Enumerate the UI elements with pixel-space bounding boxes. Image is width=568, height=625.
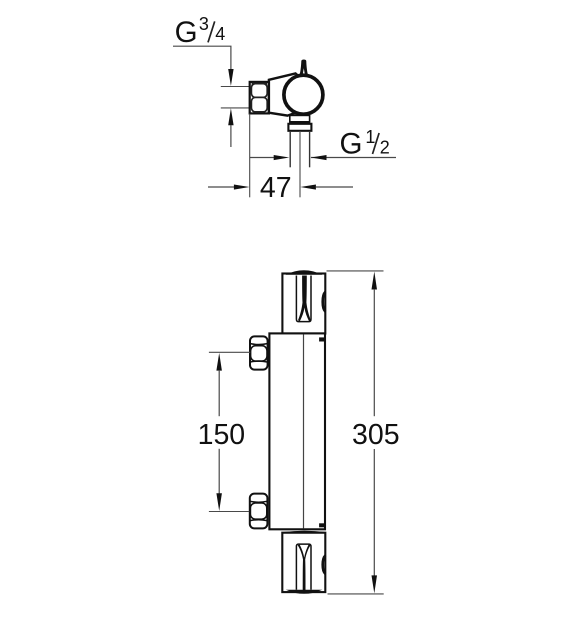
svg-text:150: 150 [198, 419, 246, 451]
thermostat circle [284, 75, 323, 114]
outlet collar ring 1 [289, 115, 310, 123]
dimension 47 left arrow [208, 185, 250, 190]
bottom handle body [282, 533, 325, 592]
svg-text:1: 1 [365, 127, 375, 147]
label G3/4 [175, 14, 226, 49]
svg-text:47: 47 [260, 172, 292, 204]
svg-text:4: 4 [215, 24, 225, 44]
lower wall nut front view [250, 494, 268, 529]
dimension 150 top extension line [209, 351, 250, 353]
bottom handle grip center funnel [298, 544, 311, 591]
eco button mark top [319, 337, 324, 341]
dimension 150 bottom extension line [209, 511, 249, 513]
outlet collar ring 2 [288, 124, 311, 131]
svg-text:305: 305 [352, 419, 400, 451]
valve body side view [269, 73, 303, 115]
top handle grip outline [296, 276, 311, 322]
leader line G3/4 [173, 46, 231, 71]
dimension 305 line and arrows [372, 272, 378, 594]
upper wall nut front view [250, 336, 268, 369]
stem knob on top [300, 60, 308, 75]
svg-text:2: 2 [380, 138, 390, 158]
eco button mark bottom [319, 523, 324, 527]
svg-text:3: 3 [199, 14, 209, 34]
dimension 305 bottom extension line [328, 593, 384, 595]
pipe centerline extension [299, 131, 301, 197]
top handle grip center funnel [298, 276, 311, 322]
nut face extension line [249, 114, 251, 198]
arrow up G3/4 [228, 108, 233, 147]
svg-text:G: G [175, 16, 198, 49]
main body front view [269, 333, 325, 529]
bottom handle grip outline [296, 544, 311, 590]
top handle side knob arc [323, 292, 326, 312]
body internal line [303, 335, 305, 529]
extension line thread top [221, 86, 250, 88]
dimension 150 line and arrows [216, 353, 222, 511]
G1/2 dimension right arrow and leader [311, 155, 396, 160]
G1/2 dimension left arrow [250, 155, 290, 160]
top handle body [282, 274, 325, 334]
label G1/2 [340, 127, 390, 161]
top handle lens [286, 270, 323, 275]
dimension 47 right arrow [300, 185, 353, 190]
outlet pipe [290, 131, 309, 167]
bottom handle bottom lens [286, 590, 323, 594]
svg-text:G: G [340, 128, 363, 161]
dimension 305 top extension line [327, 270, 384, 272]
arrow down G3/4 [228, 69, 233, 86]
bottom handle side knob arc [323, 556, 326, 574]
extension line thread bottom [221, 107, 250, 109]
union nut side view [250, 82, 269, 114]
bottom handle top band [284, 532, 326, 533]
